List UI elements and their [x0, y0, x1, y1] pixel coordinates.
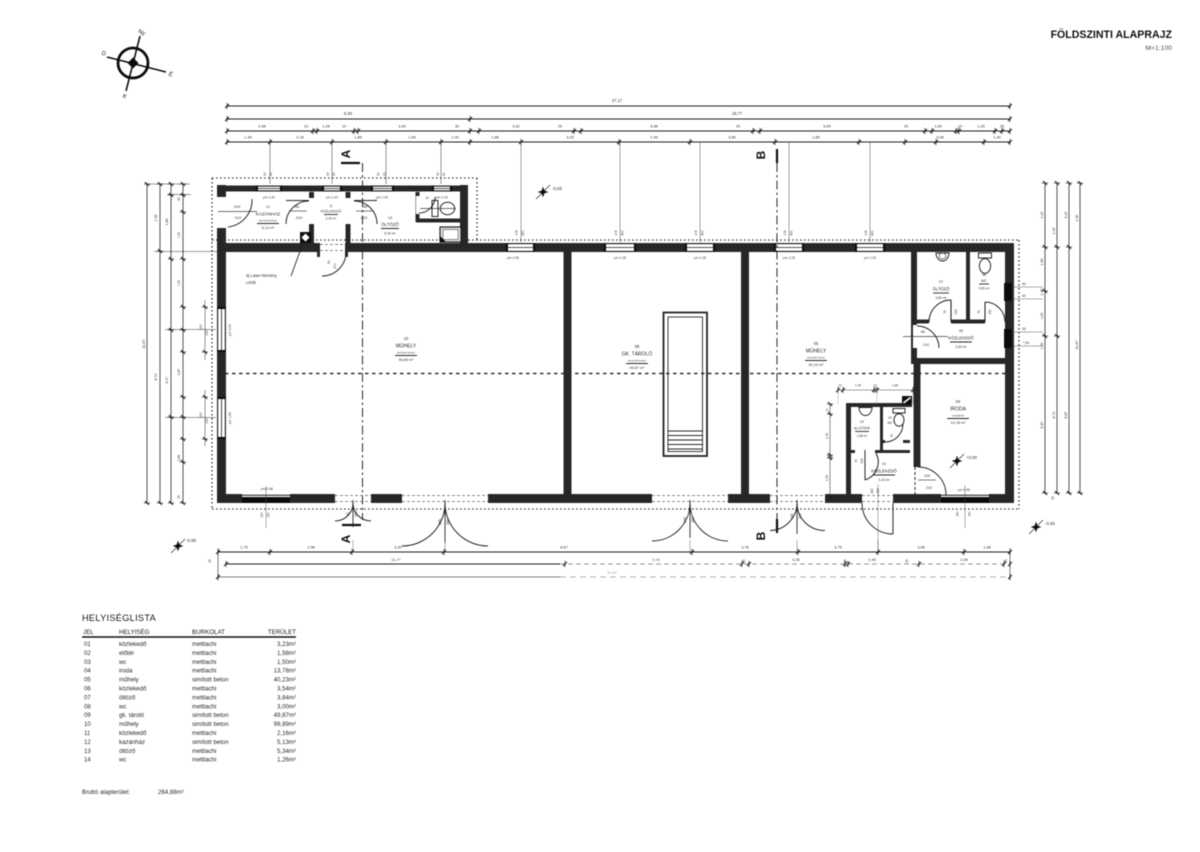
svg-text:90: 90: [177, 197, 181, 201]
svg-text:8,47: 8,47: [165, 377, 169, 384]
svg-text:1,05: 1,05: [855, 384, 861, 388]
svg-text:150: 150: [205, 418, 209, 424]
svg-text:közlekedő: közlekedő: [119, 641, 147, 648]
svg-text:11,67: 11,67: [1074, 340, 1079, 349]
bottom-left block outer walls: [846, 403, 912, 407]
svg-text:11,67: 11,67: [141, 339, 146, 348]
svg-text:1,58 m²: 1,58 m²: [857, 434, 868, 438]
door opening 02 to 01: [855, 450, 875, 455]
door opening 03 to 01: [885, 440, 903, 445]
svg-text:160: 160: [956, 511, 960, 517]
svg-text:1,28: 1,28: [322, 124, 330, 129]
door 13 to 11: [354, 200, 377, 202]
svg-text:7,50: 7,50: [1023, 341, 1030, 345]
svg-text:JEL: JEL: [83, 629, 94, 636]
svg-text:106: 106: [783, 230, 787, 236]
table header underline: [82, 636, 296, 638]
svg-text:10: 10: [838, 384, 842, 388]
svg-text:simított beton: simított beton: [192, 712, 229, 719]
svg-text:07: 07: [939, 280, 943, 284]
top-right block left wall: [911, 252, 917, 358]
svg-text:3,84m²: 3,84m²: [277, 694, 296, 701]
svg-text:pm 0,98: pm 0,98: [958, 488, 970, 492]
partition rooms 10|09: [564, 252, 572, 494]
top-right block wall under 07/08: [914, 320, 1005, 324]
svg-text:27,47: 27,47: [607, 570, 617, 575]
svg-text:1,50: 1,50: [177, 232, 181, 239]
svg-text:ELŐTÉR: ELŐTÉR: [854, 426, 870, 431]
left wall window labels: [204, 300, 206, 360]
svg-text:1,56: 1,56: [825, 475, 829, 481]
svg-text:210: 210: [361, 215, 368, 220]
svg-text:műhely: műhely: [119, 721, 140, 728]
svg-text:13: 13: [388, 216, 392, 220]
svg-text:ÖLTÖZŐ: ÖLTÖZŐ: [381, 222, 399, 227]
svg-text:106: 106: [864, 230, 868, 236]
svg-text:mettlachi: mettlachi: [192, 748, 216, 755]
svg-text:A: A: [339, 534, 353, 543]
svg-text:1,50m²: 1,50m²: [277, 659, 296, 666]
svg-text:420: 420: [790, 230, 794, 236]
svg-text:11: 11: [329, 204, 333, 208]
svg-text:65: 65: [1022, 327, 1026, 331]
top dimension row 4: [227, 141, 1010, 143]
small dim column left of room 01 block: [829, 404, 831, 497]
svg-text:420: 420: [871, 230, 875, 236]
svg-text:8,87: 8,87: [1064, 411, 1068, 418]
shower tray room 13: [440, 227, 461, 242]
svg-text:13,78m²: 13,78m²: [274, 668, 296, 675]
svg-text:90: 90: [363, 204, 368, 209]
svg-text:06: 06: [84, 686, 91, 693]
svg-text:280: 280: [683, 517, 687, 523]
svg-text:A: A: [339, 149, 353, 158]
svg-text:IRODA: IRODA: [950, 407, 967, 413]
svg-text:180: 180: [790, 513, 794, 519]
left wall window upper: [217, 307, 226, 352]
top dimension row 2: [227, 118, 1010, 120]
svg-text:25: 25: [1004, 559, 1008, 563]
svg-text:3,84 m²: 3,84 m²: [935, 296, 947, 300]
flue block near iroda: [902, 396, 912, 405]
svg-text:1,66: 1,66: [1040, 258, 1044, 265]
svg-text:3,23 m²: 3,23 m²: [878, 478, 890, 482]
door opening 08 to 06: [985, 319, 1005, 324]
svg-text:simított beton: simított beton: [192, 721, 229, 728]
svg-text:műhely: műhely: [119, 677, 140, 684]
svg-text:simított beton: simított beton: [807, 356, 826, 360]
svg-text:420: 420: [521, 230, 525, 236]
svg-text:1,88: 1,88: [491, 135, 499, 140]
svg-text:simított beton: simított beton: [192, 739, 229, 746]
svg-text:wc: wc: [118, 757, 126, 764]
front double door A 90: [335, 503, 353, 521]
svg-text:07: 07: [84, 694, 91, 701]
svg-text:új Laser kémény: új Laser kémény: [246, 273, 278, 278]
svg-text:2,16m²: 2,16m²: [277, 730, 296, 737]
svg-text:2,87: 2,87: [177, 369, 181, 376]
svg-text:TERÜLET: TERÜLET: [268, 629, 296, 636]
door 05 to 06: [917, 326, 939, 348]
svg-text:mettlachi: mettlachi: [192, 694, 216, 701]
right wall window dim labels: [1012, 286, 1043, 288]
svg-text:49,87 m²: 49,87 m²: [630, 366, 646, 370]
svg-text:40,23m²: 40,23m²: [274, 677, 296, 684]
svg-text:kazánház: kazánház: [119, 739, 145, 746]
main top wall: [217, 243, 1014, 252]
svg-text:3,08: 3,08: [917, 545, 925, 550]
svg-text:40,23 m²: 40,23 m²: [809, 363, 825, 367]
svg-text:MŰHELY: MŰHELY: [806, 348, 827, 355]
svg-text:-0,65: -0,65: [552, 186, 563, 191]
svg-text:90: 90: [377, 172, 381, 176]
svg-text:110: 110: [870, 488, 874, 493]
svg-text:1,00: 1,00: [451, 135, 459, 140]
svg-text:70: 70: [943, 310, 947, 314]
main top wall window 3: [685, 243, 715, 252]
svg-text:106: 106: [515, 230, 519, 236]
door opening 01 to iroda 04: [913, 467, 922, 494]
lintel dashes over opening 11-10: [320, 244, 345, 246]
svg-text:5,13 m²: 5,13 m²: [262, 226, 276, 230]
section line B: [776, 163, 778, 520]
partition rooms 09|05: [741, 252, 749, 494]
svg-text:210: 210: [296, 215, 303, 220]
svg-text:2,10: 2,10: [1040, 211, 1044, 218]
block partition 02|03: [880, 407, 883, 450]
dotted outer boundary: [212, 177, 477, 179]
svg-text:1,40: 1,40: [993, 135, 1001, 140]
door opening 07 to 06: [929, 319, 951, 324]
svg-text:06: 06: [959, 329, 963, 333]
bottom dimension row 3 total 27,47: [218, 576, 560, 578]
svg-text:14: 14: [425, 196, 429, 200]
svg-text:25: 25: [1000, 124, 1004, 129]
svg-text:13: 13: [84, 748, 91, 755]
svg-text:60: 60: [1022, 294, 1026, 298]
svg-text:3,90: 3,90: [398, 124, 406, 129]
door opening room 11 to room 10: [320, 242, 345, 253]
svg-text:HELYISÉG: HELYISÉG: [119, 629, 150, 636]
svg-text:B: B: [754, 531, 768, 540]
svg-text:60: 60: [383, 172, 387, 176]
front double door room 05: [770, 503, 797, 531]
svg-text:90: 90: [263, 172, 267, 176]
svg-text:BURKOLAT: BURKOLAT: [192, 629, 225, 636]
svg-text:WC: WC: [981, 279, 987, 283]
svg-text:100: 100: [234, 204, 241, 209]
svg-text:2,35: 2,35: [154, 214, 158, 221]
bottom wall window left: [242, 494, 290, 503]
svg-text:pm 2,28: pm 2,28: [783, 256, 795, 260]
right outer wall: [1005, 243, 1014, 503]
svg-text:2,16 m²: 2,16 m²: [326, 217, 337, 221]
svg-text:5,69: 5,69: [823, 124, 831, 129]
svg-text:25: 25: [905, 559, 909, 563]
annex partition 11|13: [346, 192, 351, 243]
door 13 to 14 swing: [419, 197, 435, 213]
svg-text:08: 08: [84, 703, 91, 710]
svg-text:1,00: 1,00: [1040, 313, 1044, 320]
svg-text:mettlachi: mettlachi: [192, 668, 216, 675]
svg-text:3,35: 3,35: [792, 557, 800, 562]
glass block window right wall lower: [1004, 329, 1012, 348]
svg-text:simított beton: simított beton: [628, 359, 647, 363]
svg-text:8,57: 8,57: [560, 545, 568, 550]
bottom dimension row 2: [226, 563, 560, 565]
svg-text:2,98: 2,98: [307, 545, 315, 550]
svg-text:210: 210: [954, 309, 958, 315]
level marker -0,65 bottom right: [1031, 522, 1042, 533]
bottom wall door openings: [335, 494, 371, 503]
top-right block partition 07|08: [966, 252, 970, 322]
svg-text:1,45: 1,45: [244, 135, 252, 140]
annex wall below WC 14: [416, 219, 460, 223]
svg-text:5,98: 5,98: [652, 557, 660, 562]
svg-text:WC: WC: [887, 421, 893, 425]
svg-text:25: 25: [904, 124, 908, 129]
svg-text:3,00m²: 3,00m²: [277, 703, 296, 710]
door 01 to iroda 100/210: [918, 467, 946, 495]
svg-text:150: 150: [205, 330, 209, 336]
door 12 to 11: [286, 200, 309, 202]
door 11 to 10 swing: [322, 252, 346, 276]
svg-text:ÖLTÖZŐ: ÖLTÖZŐ: [933, 287, 951, 292]
svg-text:49,87m²: 49,87m²: [274, 712, 296, 719]
svg-text:wc: wc: [118, 659, 126, 666]
entrance door annex left 100/210: [228, 199, 252, 227]
svg-text:simított beton: simított beton: [192, 677, 229, 684]
main top wall window 2: [604, 243, 636, 252]
svg-text:5,13m²: 5,13m²: [277, 739, 296, 746]
svg-text:1,85: 1,85: [354, 135, 362, 140]
svg-text:mettlachi: mettlachi: [192, 757, 216, 764]
level marker -0,85 bottom left: [173, 541, 184, 552]
svg-text:3,32: 3,32: [512, 124, 520, 129]
garage double door: [652, 503, 690, 541]
svg-text:10: 10: [404, 336, 409, 341]
svg-text:03: 03: [888, 416, 892, 420]
block wall inside 03: [883, 440, 910, 443]
svg-text:3,66: 3,66: [177, 455, 181, 462]
svg-text:150: 150: [267, 512, 271, 518]
annex partition 13|14: [416, 192, 420, 222]
svg-text:210: 210: [926, 486, 932, 490]
svg-text:2,40: 2,40: [1040, 288, 1044, 295]
svg-text:01: 01: [882, 462, 886, 466]
door opening annex left wall: [216, 197, 227, 228]
main top wall window 5: [855, 243, 885, 252]
svg-text:közlekedő: közlekedő: [119, 730, 147, 737]
svg-text:3,54m²: 3,54m²: [277, 686, 296, 693]
glass block window right wall upper: [1004, 283, 1012, 301]
level marker -0,65 top: [538, 187, 549, 198]
svg-text:70: 70: [977, 310, 981, 314]
svg-text:1,86: 1,86: [165, 219, 169, 226]
svg-text:3,20: 3,20: [394, 545, 402, 550]
svg-text:3,78: 3,78: [741, 545, 749, 550]
svg-text:wc: wc: [118, 703, 126, 710]
door 03 to 01: [885, 424, 903, 442]
section line A: [362, 163, 364, 520]
svg-text:1,68: 1,68: [892, 384, 898, 388]
svg-text:12: 12: [266, 205, 270, 209]
svg-text:mettlachi: mettlachi: [192, 703, 216, 710]
wall between room 06 and iroda: [911, 358, 1006, 364]
svg-text:2,85: 2,85: [812, 135, 820, 140]
svg-text:előtér: előtér: [119, 650, 134, 657]
svg-text:3,10: 3,10: [1064, 211, 1068, 218]
main top wall window 4: [774, 243, 804, 252]
svg-text:5,87: 5,87: [1040, 421, 1044, 428]
svg-text:pm 2,28: pm 2,28: [864, 256, 876, 260]
svg-text:2,45: 2,45: [868, 557, 876, 562]
svg-text:25: 25: [558, 124, 562, 129]
svg-text:210: 210: [798, 513, 802, 519]
svg-text:04: 04: [84, 668, 91, 675]
bottom wall window right under iroda: [941, 494, 989, 503]
svg-text:2,15: 2,15: [296, 135, 304, 140]
entrance door room 01: [862, 503, 893, 534]
svg-text:01: 01: [84, 641, 91, 648]
svg-text:25: 25: [736, 124, 740, 129]
svg-text:106: 106: [694, 230, 698, 236]
svg-text:60: 60: [332, 172, 336, 176]
passage wall stubs below room 11: [317, 252, 320, 257]
svg-text:pm 2,40: pm 2,40: [263, 196, 275, 200]
level marker +0,00 iroda: [952, 456, 963, 467]
svg-text:75: 75: [890, 434, 894, 438]
svg-text:02: 02: [84, 650, 91, 657]
svg-text:60: 60: [442, 172, 446, 176]
door 02 to 01: [864, 450, 866, 480]
svg-text:B: B: [754, 150, 768, 159]
svg-text:25: 25: [742, 559, 746, 563]
svg-text:1,69: 1,69: [934, 124, 942, 129]
svg-text:27,17: 27,17: [612, 98, 623, 103]
svg-text:02: 02: [860, 420, 864, 424]
left wall window lower: [217, 397, 226, 439]
svg-text:90: 90: [295, 204, 300, 209]
iroda left wall: [914, 364, 921, 497]
svg-text:FÖLDSZINTI ALAPRAJZ: FÖLDSZINTI ALAPRAJZ: [1051, 28, 1173, 41]
svg-text:2,95: 2,95: [960, 557, 968, 562]
svg-text:öltöző: öltöző: [119, 694, 136, 701]
svg-text:10: 10: [873, 384, 877, 388]
svg-text:09: 09: [84, 712, 91, 719]
svg-text:5,98: 5,98: [650, 124, 658, 129]
svg-text:04: 04: [956, 399, 961, 404]
svg-text:KÖZLEKEDŐ: KÖZLEKEDŐ: [871, 469, 897, 474]
svg-text:1,75: 1,75: [240, 545, 248, 550]
svg-text:iroda: iroda: [119, 668, 133, 675]
svg-text:280: 280: [446, 519, 450, 525]
svg-text:1,40: 1,40: [825, 433, 829, 439]
svg-text:pm 2,40: pm 2,40: [436, 196, 448, 200]
svg-text:85: 85: [921, 330, 925, 334]
door opening 13 to 14: [416, 196, 422, 214]
svg-text:99,89m²: 99,89m²: [274, 721, 296, 728]
svg-text:közlekedő: közlekedő: [119, 686, 147, 693]
window extension lines to top dims: [269, 142, 271, 184]
svg-text:150: 150: [199, 412, 203, 418]
svg-text:03: 03: [84, 659, 91, 666]
svg-text:420: 420: [701, 230, 705, 236]
svg-text:60: 60: [1022, 282, 1026, 286]
svg-text:210: 210: [235, 215, 242, 220]
svg-text:12: 12: [84, 739, 91, 746]
svg-text:13,78 m²: 13,78 m²: [951, 421, 967, 425]
svg-text:KÖZLEKEDŐ: KÖZLEKEDŐ: [948, 336, 974, 341]
top dimension row 1 total 27,17: [227, 105, 1010, 107]
svg-text:25: 25: [177, 495, 181, 499]
svg-text:pm 2,40: pm 2,40: [376, 196, 388, 200]
svg-text:08: 08: [982, 273, 986, 277]
svg-text:pm 2,56: pm 2,56: [507, 256, 519, 260]
annex window 3: [371, 186, 394, 192]
svg-text:11,77: 11,77: [391, 557, 400, 562]
svg-text:2,40: 2,40: [1075, 214, 1079, 221]
svg-text:5,34 m²: 5,34 m²: [384, 232, 396, 236]
right dimension lines: [1044, 183, 1046, 493]
annex top wall: [217, 186, 468, 192]
small dim row above room 01 block: [838, 389, 913, 391]
svg-text:8,40: 8,40: [344, 111, 353, 116]
svg-text:pm 2,28: pm 2,28: [694, 256, 706, 260]
svg-text:1,65: 1,65: [408, 135, 416, 140]
svg-text:HELYISÉGLISTA: HELYISÉGLISTA: [82, 613, 157, 623]
front double door 280: [402, 503, 445, 546]
door opening 05 to 06: [913, 325, 921, 348]
svg-text:LK08: LK08: [246, 280, 256, 285]
svg-text:1,26m²: 1,26m²: [277, 757, 296, 764]
svg-text:11: 11: [84, 730, 91, 737]
annex window 2: [322, 186, 342, 192]
svg-text:-0,65: -0,65: [1045, 521, 1056, 526]
dashed mid line across building: [218, 373, 1005, 375]
svg-text:1,46: 1,46: [1052, 228, 1056, 235]
svg-text:3,00 m²: 3,00 m²: [979, 287, 990, 291]
svg-text:3,25: 3,25: [566, 135, 574, 140]
svg-text:KÖZLEKEDŐ: KÖZLEKEDŐ: [321, 209, 342, 214]
svg-text:90: 90: [346, 512, 350, 516]
svg-text:3,54 m²: 3,54 m²: [955, 345, 967, 349]
svg-text:GK. TÁROLÓ: GK. TÁROLÓ: [622, 351, 653, 358]
svg-text:pm 0,90: pm 0,90: [228, 324, 232, 336]
svg-text:05: 05: [84, 677, 91, 684]
garage pit: [664, 313, 708, 457]
svg-text:pm 1,66: pm 1,66: [228, 412, 232, 424]
svg-text:mettlachi: mettlachi: [192, 730, 216, 737]
svg-text:18,77: 18,77: [732, 111, 743, 116]
svg-text:210: 210: [988, 309, 992, 315]
svg-text:10: 10: [825, 408, 829, 412]
left outer wall: [217, 185, 226, 503]
left dimension lines: [146, 184, 148, 503]
svg-text:Bruttó alapterület:: Bruttó alapterület:: [82, 789, 130, 796]
svg-text:210: 210: [333, 263, 337, 269]
chimney leader line: [291, 243, 303, 276]
chimney in room 11: [300, 232, 311, 243]
svg-text:gk. tároló: gk. tároló: [119, 712, 145, 719]
door 07 to 06: [950, 300, 952, 322]
svg-text:mettlachi: mettlachi: [192, 650, 216, 657]
svg-text:280: 280: [438, 519, 442, 525]
annex window 1: [256, 186, 282, 192]
svg-text:210: 210: [860, 458, 864, 464]
svg-text:8,72: 8,72: [154, 373, 158, 380]
top dimension row 3: [227, 130, 1010, 132]
